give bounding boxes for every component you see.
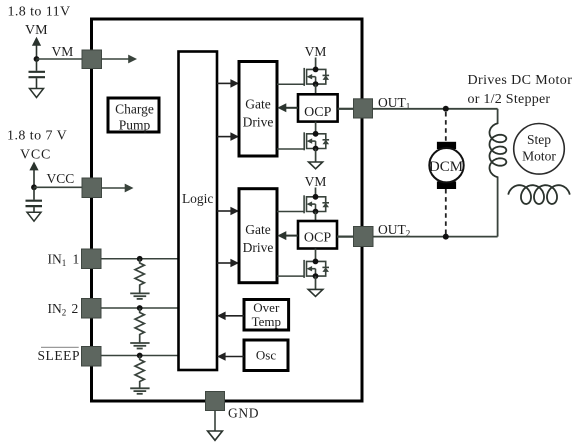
IC boundary box <box>92 19 363 401</box>
svg-text:IN11: IN11 <box>48 252 80 269</box>
block Over Temp <box>244 300 289 331</box>
svg-text:VM: VM <box>25 23 48 38</box>
svg-text:Charge: Charge <box>115 102 154 117</box>
wire logic to gate drive 1 arrow a <box>217 79 239 88</box>
node VM junction <box>34 56 40 62</box>
svg-text:Gate: Gate <box>245 97 270 112</box>
ground (VCC cap) <box>27 212 41 221</box>
node OUT2 junction <box>443 234 449 240</box>
svg-text:IN22: IN22 <box>48 301 79 318</box>
block Osc <box>244 340 288 371</box>
svg-text:Over: Over <box>253 300 280 315</box>
motor Step Motor <box>514 124 565 175</box>
block OCP2 <box>298 221 337 249</box>
pin SLEEP <box>82 347 102 367</box>
wire gate drive 1 to Q1 gate <box>277 83 304 85</box>
ground (R-IN2) <box>130 343 149 349</box>
svg-text:Motor: Motor <box>522 149 556 164</box>
VM supply arrow <box>32 37 41 59</box>
node IN1 junction <box>137 256 143 262</box>
svg-text:Pump: Pump <box>119 117 151 132</box>
ground (R-IN1) <box>130 293 149 299</box>
node IN2 junction <box>137 305 143 311</box>
transistor Q1 (high side 1) <box>304 67 329 88</box>
pin GND <box>206 392 225 411</box>
resistor R-IN2 <box>135 308 144 343</box>
wire OUT1 net <box>373 109 498 237</box>
wire Q1 source to OCP1 <box>315 84 317 94</box>
svg-text:Logic: Logic <box>182 191 214 206</box>
block Gate Drive 1 <box>239 62 277 157</box>
svg-text:1.8 to 11V: 1.8 to 11V <box>8 5 71 20</box>
VCC supply arrow <box>29 162 38 188</box>
inductor L1 (vertical coil) <box>490 123 507 177</box>
pin VCC <box>82 178 102 198</box>
resistor R-IN1 <box>135 259 144 293</box>
svg-text:Drives DC Motor: Drives DC Motor <box>468 73 573 88</box>
node SLEEP junction <box>137 353 143 359</box>
wire OCP1 to gate drive 1 arrow <box>277 103 298 112</box>
wire OCP1 to Q2 drain <box>315 122 317 134</box>
wire gate drive 2 to Q4 gate <box>277 275 304 277</box>
wire VM to pin <box>37 58 84 60</box>
wire Q4 source to ground <box>315 276 317 289</box>
wire Q3 source to OCP2 <box>315 212 317 222</box>
svg-text:VM: VM <box>305 44 327 59</box>
svg-text:Osc: Osc <box>256 348 276 363</box>
transistor Q4 (low side 2) <box>304 259 329 280</box>
wire GND pin to ground <box>214 411 216 432</box>
ground (half-bridge 2) <box>308 289 323 296</box>
motor DCM <box>429 142 464 189</box>
wire VM to Q3 drain <box>315 188 317 197</box>
svg-text:VCC: VCC <box>47 171 75 186</box>
svg-text:OCP: OCP <box>304 105 331 120</box>
node VCC junction <box>31 184 37 190</box>
wire OCP2 to OUT2 pin <box>337 236 354 238</box>
capacitor C-VCC <box>26 187 43 212</box>
transistor Q3 (high side 2) <box>304 194 329 214</box>
wire dashed DCM to OUT2 <box>445 189 447 234</box>
svg-text:SLEEP: SLEEP <box>38 348 81 363</box>
block Logic <box>179 52 218 371</box>
svg-text:VM: VM <box>305 174 327 189</box>
wire Q2 source to ground <box>315 149 317 163</box>
wire dashed OUT1 to DCM <box>445 112 447 142</box>
svg-text:Step: Step <box>527 132 551 147</box>
wire SLEEP to logic <box>101 355 179 357</box>
pin IN1 <box>82 249 102 269</box>
block OCP1 <box>298 94 338 121</box>
inductor L2 (horizontal coil) <box>508 185 570 204</box>
svg-text:Drive: Drive <box>243 115 274 130</box>
ground (R-SLEEP) <box>130 388 149 394</box>
wire VM to Q1 drain <box>315 58 317 70</box>
svg-text:VM: VM <box>52 44 74 59</box>
svg-text:DCM: DCM <box>429 159 463 175</box>
pin OUT2 <box>354 227 374 247</box>
ground (VM cap) <box>30 89 44 98</box>
svg-text:Drive: Drive <box>243 240 274 255</box>
svg-text:Gate: Gate <box>245 222 270 237</box>
svg-text:Temp: Temp <box>252 314 281 329</box>
svg-text:1.8 to 7 V: 1.8 to 7 V <box>7 129 67 144</box>
block Gate Drive 2 <box>239 189 277 283</box>
wire IN1 to logic <box>101 258 179 260</box>
ground (GND pin) <box>208 431 223 440</box>
wire VM internal arrow <box>102 55 138 64</box>
svg-text:or 1/2 Stepper: or 1/2 Stepper <box>468 92 551 107</box>
wire IN2 to logic <box>101 307 179 309</box>
wire VCC to pin <box>34 186 82 188</box>
svg-text:OCP: OCP <box>304 231 331 246</box>
wire logic to gate drive 1 arrow b <box>217 132 239 141</box>
pin VM <box>82 50 102 69</box>
wire OCP1 to OUT1 pin <box>338 108 354 110</box>
wire logic to gate drive 2 arrow a <box>217 207 239 216</box>
wire VCC internal arrow <box>102 184 134 193</box>
svg-text:GND: GND <box>228 406 259 421</box>
wire OCP2 to gate drive 2 arrow <box>277 231 298 240</box>
pin SLEEP overline <box>41 346 79 348</box>
wire gate drive 1 to Q2 gate <box>277 148 304 150</box>
node OUT1 junction <box>443 106 449 112</box>
svg-text:VCC: VCC <box>20 148 51 163</box>
ground (half-bridge 1) <box>309 162 323 169</box>
capacitor C-VM <box>29 59 46 88</box>
wire gate drive 2 to Q3 gate <box>277 211 304 213</box>
wire logic to gate drive 2 arrow b <box>217 259 239 268</box>
pin IN2 <box>82 299 102 319</box>
block Charge Pump <box>108 98 159 132</box>
transistor Q2 (low side 1) <box>304 131 329 151</box>
resistor R-SLEEP <box>135 356 144 388</box>
pin OUT1 <box>354 99 373 118</box>
wire OCP2 to Q4 drain <box>315 249 317 262</box>
wire osc to logic arrow <box>217 352 244 361</box>
wire over temp to logic arrow <box>217 312 244 321</box>
